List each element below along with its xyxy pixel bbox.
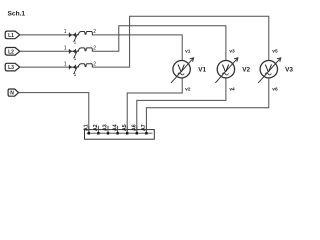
- svg-text:N: N: [10, 91, 14, 97]
- pin A5: [126, 126, 128, 133]
- svg-text:1: 1: [74, 56, 77, 62]
- svg-text:V1: V1: [198, 67, 206, 74]
- svg-text:A5: A5: [122, 124, 128, 131]
- wire L1 row breaker to meter V1 top: [93, 35, 183, 61]
- terminal L2: [5, 48, 20, 56]
- voltmeter P2: [215, 48, 250, 92]
- svg-text:1: 1: [64, 29, 67, 35]
- svg-text:Sch.1: Sch.1: [8, 11, 26, 18]
- svg-text:A2: A2: [93, 124, 99, 131]
- svg-text:2: 2: [93, 29, 96, 35]
- svg-text:v6: v6: [272, 86, 278, 92]
- wire L2 row breaker up and over to meter V2 top: [93, 26, 226, 61]
- pin A2: [97, 126, 99, 133]
- svg-text:v1: v1: [185, 48, 191, 54]
- svg-text:2: 2: [93, 46, 96, 52]
- pin A1: [88, 126, 90, 133]
- voltmeter P3: [258, 48, 293, 92]
- svg-text:1: 1: [64, 46, 67, 52]
- svg-text:v4: v4: [229, 86, 235, 92]
- svg-text:A3: A3: [103, 124, 109, 131]
- wire meter V3 bottom to connector pin A7: [146, 78, 268, 133]
- svg-text:L2: L2: [8, 49, 14, 55]
- wire L1 row to breaker: [20, 34, 79, 36]
- svg-text:V2: V2: [242, 67, 250, 74]
- breaker Q3: [64, 61, 96, 78]
- wire L3 row to breaker: [20, 66, 79, 68]
- svg-text:1: 1: [74, 72, 77, 78]
- breaker Q2: [64, 46, 96, 63]
- connector X1 body: [85, 130, 155, 140]
- wire meter V1 bottom to connector pin A5: [127, 78, 182, 133]
- wire N to connector pin A1: [19, 93, 89, 134]
- connector X1 inner bus: [87, 132, 153, 134]
- wire meter V2 bottom to connector pin A6: [137, 78, 226, 133]
- svg-text:V3: V3: [285, 67, 293, 74]
- pin A6: [136, 126, 138, 133]
- svg-text:L1: L1: [8, 33, 14, 39]
- terminal L3: [5, 63, 20, 71]
- pin A3: [107, 126, 109, 133]
- svg-text:2: 2: [93, 61, 96, 67]
- wire L2 row to breaker: [20, 50, 79, 52]
- svg-text:A7: A7: [141, 124, 147, 131]
- svg-text:A1: A1: [84, 124, 90, 131]
- svg-text:A4: A4: [112, 124, 118, 131]
- svg-text:v5: v5: [272, 48, 278, 54]
- terminal N: [8, 89, 19, 96]
- terminal L1: [5, 31, 20, 39]
- svg-text:1: 1: [74, 40, 77, 46]
- pin A4: [117, 126, 119, 133]
- breaker Q1: [64, 29, 96, 46]
- pin A7: [145, 126, 147, 133]
- svg-text:1: 1: [64, 61, 67, 67]
- svg-text:A6: A6: [132, 124, 138, 131]
- svg-text:L3: L3: [8, 65, 14, 71]
- svg-text:v2: v2: [185, 86, 191, 92]
- svg-text:v3: v3: [229, 48, 235, 54]
- voltmeter P1: [171, 48, 206, 92]
- wire L3 row breaker up and over to meter V3 top: [93, 16, 269, 67]
